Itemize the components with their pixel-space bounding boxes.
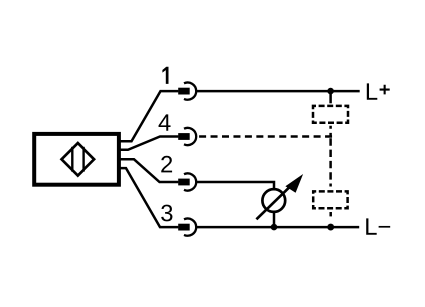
wire 4 (sensor to pin 4) (119, 137, 178, 150)
wire dashed load box 2 to L- node (329, 212, 332, 216)
connector socket 1 (184, 83, 196, 100)
meter arrow shaft (256, 186, 291, 220)
label L+ (367, 83, 377, 99)
wire 2 (sensor to pin 2) (119, 159, 178, 182)
connector socket 4 (184, 128, 196, 145)
label L- (366, 218, 376, 234)
label pin 2 (161, 156, 172, 173)
wire 1 (sensor to pin 1) (119, 91, 178, 141)
load box 2 (dashed, optional load) (313, 191, 347, 208)
meter arrow head (285, 174, 303, 193)
wire dashed load box 1 to wire-4 node (329, 126, 332, 137)
wire L- rail (196, 226, 359, 229)
wire dashed L+ node to load box 1 (329, 91, 332, 103)
wire L+ rail (196, 90, 359, 93)
connector socket 2 (184, 173, 196, 190)
connector pin 3 (178, 224, 190, 231)
diamond inner bar right (82, 147, 84, 172)
meter M1 circle (262, 189, 285, 212)
connector pin 4 (178, 133, 190, 140)
node L- junction (327, 224, 334, 231)
connector pin 1 (178, 88, 190, 95)
connector pin 2 (178, 179, 190, 186)
diamond inner bar left (71, 147, 73, 172)
sensor body (proximity sensor) (34, 134, 119, 185)
load box 1 (dashed, optional load) (313, 106, 348, 123)
node L+ junction (327, 88, 334, 95)
wire 3 (sensor to pin 3) (119, 168, 178, 227)
label L- minus sign (379, 226, 391, 228)
wire dashed wire-4 node to load box 2 (329, 138, 332, 186)
label pin 3 (161, 205, 172, 222)
wire meter to L- rail (273, 212, 276, 227)
label pin 1 (162, 67, 168, 84)
connector socket 3 (184, 218, 196, 235)
wire pin2 to meter (196, 182, 274, 189)
node meter junction (271, 224, 278, 231)
wire 4 dashed (optional connection) (199, 135, 332, 138)
label pin 4 (159, 114, 171, 130)
sensor symbol diamond (62, 143, 95, 176)
label L+ plus sign (380, 85, 390, 95)
